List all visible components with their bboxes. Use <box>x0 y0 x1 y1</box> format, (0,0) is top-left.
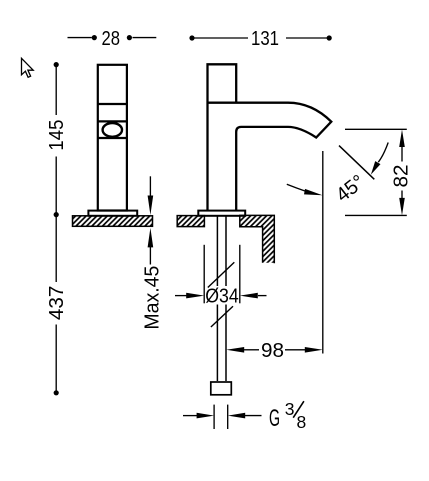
svg-text:3: 3 <box>285 399 295 419</box>
svg-text:131: 131 <box>251 28 279 50</box>
svg-text:82: 82 <box>390 165 412 188</box>
svg-text:28: 28 <box>102 28 121 50</box>
svg-text:145: 145 <box>46 120 68 151</box>
svg-text:98: 98 <box>261 340 284 362</box>
svg-text:G: G <box>269 405 280 432</box>
svg-text:8: 8 <box>297 412 307 432</box>
svg-text:Max.45: Max.45 <box>142 266 164 330</box>
svg-text:Ø34: Ø34 <box>205 286 239 308</box>
svg-text:437: 437 <box>46 286 68 321</box>
